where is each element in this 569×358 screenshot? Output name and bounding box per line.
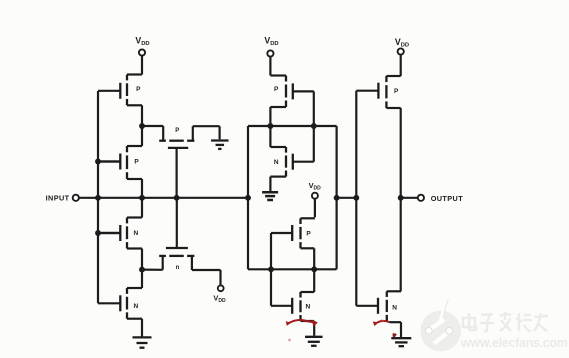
wire M12 source to ground (400, 322, 402, 337)
svg-text:P: P (394, 88, 399, 95)
power VDD2 (264, 36, 278, 76)
svg-text:INPUT: INPUT (46, 193, 70, 202)
transistor M2 P (98, 146, 142, 179)
wire node C to M4 drain (141, 270, 143, 288)
svg-text:www.elecfans.com: www.elecfans.com (460, 336, 568, 350)
svg-text:OUTPUT: OUTPUT (431, 194, 464, 203)
watermark url (460, 336, 568, 350)
svg-text:N: N (274, 159, 279, 166)
wire M9/M10 gate link (270, 233, 272, 306)
junction gate node E2 (268, 266, 274, 272)
junction gate bus / input (95, 195, 101, 201)
junction node B (139, 195, 145, 201)
wire right cross link (336, 126, 338, 269)
wire M1 drain to node A (141, 105, 143, 126)
svg-text:P: P (274, 86, 279, 93)
red annotation mark 1 (286, 320, 318, 327)
wire M6 right to VDD (192, 270, 221, 285)
transistor M9 P (271, 218, 315, 248)
wire M10 source to ground (313, 321, 315, 336)
transistor M12 N (356, 291, 401, 322)
transistor M8 N (270, 147, 313, 177)
ground left stack (133, 337, 152, 347)
svg-text:N: N (305, 304, 310, 311)
wire node A to M2 source (141, 126, 143, 146)
wire M8 source to ground (269, 177, 271, 191)
svg-text:P: P (306, 231, 311, 238)
junction cross left / bus (245, 195, 251, 201)
junction gate bus / M2 gate (95, 159, 101, 165)
junction gate node D2 (311, 123, 317, 129)
svg-text:N: N (392, 305, 397, 312)
INPUT terminal (46, 193, 98, 202)
gate lead M2 (98, 160, 120, 162)
junction cross right / bus (334, 195, 340, 201)
transistor M3 N (98, 218, 142, 249)
red annotation mark 2 (373, 320, 390, 327)
ground stage2 output N (305, 337, 323, 346)
junction stage3 gate / bus (353, 195, 359, 201)
wire stage2 bottom rail (248, 268, 337, 270)
junction gate bus / M3 gate (95, 230, 101, 236)
wire node C to M6 left (142, 269, 163, 271)
wire M2 drain to node B (141, 179, 143, 198)
svg-text:P: P (175, 128, 179, 134)
wire stage3 gate bus (355, 91, 357, 306)
wire input gate bus (97, 91, 99, 303)
power VDD4 (395, 37, 409, 76)
transistor M11 P (356, 76, 400, 108)
transistor M7 P (270, 76, 313, 108)
wire M9 drain down (313, 248, 315, 269)
wire M5 right to ground (193, 126, 220, 139)
watermark chinese text (463, 312, 548, 331)
wire output node to M12 drain (400, 198, 402, 291)
gate lead M3 (98, 232, 120, 234)
svg-text:P: P (134, 159, 139, 166)
wire node B to M3 drain (141, 198, 143, 218)
wire node A to M5 source (142, 126, 163, 141)
svg-text:P: P (136, 86, 141, 93)
svg-text:N: N (133, 230, 138, 237)
OUTPUT terminal (401, 194, 464, 203)
svg-text:N: N (133, 303, 138, 310)
junction node D (267, 123, 273, 129)
transistor M4 N (98, 288, 142, 319)
wire left cross link (247, 126, 249, 269)
transistor M6 N (feedback) (159, 198, 194, 271)
wire M7/M8 gate link (313, 91, 315, 161)
wire M7 drain to node D (269, 107, 271, 126)
watermark logo (420, 300, 461, 351)
wire stage2 top rail (248, 125, 337, 127)
wire M4 source to ground (141, 319, 143, 337)
power VDD1 (135, 36, 149, 75)
ground feedback P (211, 141, 229, 149)
svg-text:n: n (176, 265, 180, 271)
wire M3 source to node C (141, 249, 143, 270)
red dot (288, 339, 291, 342)
ground stage2 inverter (262, 192, 278, 200)
junction output node (398, 195, 404, 201)
red patch near ground (393, 333, 398, 338)
junction node C (139, 267, 145, 273)
junction gate node M5/M6 (174, 195, 180, 201)
junction node E (M9 drain) (311, 266, 317, 272)
wire stage1 output bus (98, 197, 248, 199)
transistor M10 N (271, 292, 314, 321)
transistor M5 P (feedback) (159, 126, 194, 198)
power VDD (feedback bias) (213, 285, 226, 304)
wire bus to stage3 gate (337, 197, 357, 199)
power VDD3 (309, 181, 322, 217)
wire node E to M10 drain (313, 269, 315, 292)
wire M11 drain to output node (400, 108, 402, 198)
wire node D to M8 drain (269, 126, 271, 147)
junction node A (139, 123, 145, 129)
transistor M1 P (98, 75, 142, 106)
ground stage3 output N (391, 338, 411, 346)
